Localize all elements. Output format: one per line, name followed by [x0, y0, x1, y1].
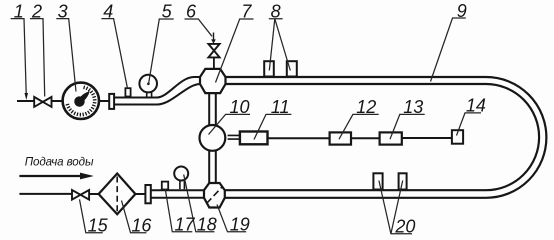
sensors 20 [373, 173, 382, 189]
node label 20 [379, 181, 412, 234]
node label 16 [122, 201, 147, 233]
wire: s-bend up to top level [157, 77, 200, 98]
valve 2 [34, 97, 51, 107]
wire: bottom-left double pipe [151, 190, 204, 198]
svg-text:13: 13 [403, 97, 423, 117]
svg-text:1: 1 [14, 1, 24, 21]
wire: vertical pipe circle10-junction19 [209, 150, 216, 183]
node label 10 [209, 114, 251, 134]
svg-text:5: 5 [162, 1, 173, 21]
svg-text:17: 17 [175, 215, 196, 235]
wire: filter16-coupling [135, 193, 145, 195]
svg-text:7: 7 [241, 1, 252, 21]
water meter 3 [63, 83, 99, 119]
sensor 4 [125, 88, 130, 96]
node label 2 [30, 19, 45, 97]
node label 1 [11, 19, 27, 94]
valve 15 [72, 190, 89, 200]
block 14 [452, 130, 463, 144]
block 13 [380, 132, 402, 144]
node label 11 [254, 114, 291, 139]
svg-text:10: 10 [230, 97, 250, 117]
svg-text:18: 18 [197, 215, 217, 235]
node label 17 [165, 189, 192, 231]
svg-text:8: 8 [271, 1, 281, 21]
wire: connector circle10 to block 11 [228, 135, 240, 139]
node label 3 [56, 19, 76, 92]
node label 12 [339, 114, 379, 139]
svg-text:19: 19 [230, 215, 250, 235]
supply arrow [19, 175, 81, 177]
coupling (before 17) [145, 185, 150, 203]
wire: vertical pipe junction7-circle10 [209, 93, 216, 126]
pump circle 10 [200, 125, 226, 151]
svg-text:9: 9 [457, 1, 467, 21]
svg-text:16: 16 [131, 215, 152, 235]
node label 14 [457, 113, 482, 136]
node label 5 [149, 19, 174, 84]
svg-text:12: 12 [356, 97, 376, 117]
node label 15 [80, 199, 103, 232]
svg-text:3: 3 [58, 1, 68, 21]
block 12 [330, 132, 351, 144]
wire: lower-level double pipe [114, 98, 158, 105]
wire: block13-block14 [402, 137, 452, 139]
node label 6 [185, 19, 213, 36]
svg-text:15: 15 [88, 215, 109, 235]
node label 4 [101, 19, 127, 89]
svg-text:6: 6 [186, 1, 197, 21]
wire: block12-block13 [351, 137, 380, 139]
node label 19 [217, 205, 246, 232]
gauge 18 [180, 180, 185, 189]
svg-text:Подача воды: Подача воды [25, 156, 94, 169]
meter pointer blob [74, 91, 89, 107]
wire: meter-to-flange [99, 100, 109, 102]
flange coupling (after meter) [109, 94, 114, 109]
wire: bottom inlet single pipe [19, 193, 72, 195]
junction 19 [204, 183, 225, 208]
gauge 5 [147, 92, 152, 97]
wire: return bend [486, 77, 546, 198]
node label 7 [216, 19, 254, 83]
svg-text:11: 11 [271, 97, 290, 117]
leaders and underlines [11, 18, 481, 234]
wire: valve2-to-meter [51, 100, 62, 102]
sensor 17 [162, 182, 168, 190]
valve 6 [213, 57, 215, 69]
wire: bottom pipe [225, 190, 486, 198]
node label 13 [390, 114, 425, 139]
svg-text:4: 4 [103, 1, 113, 21]
node label 9 [431, 18, 466, 82]
svg-text:20: 20 [394, 217, 415, 237]
node label 8 [269, 19, 291, 71]
wire: valve15-filter16 [89, 193, 100, 195]
wire: inlet single pipe top-left [17, 100, 34, 102]
wire: block11-block12 [268, 137, 330, 139]
wire: top pipe [226, 77, 487, 84]
junction 7 [200, 69, 226, 93]
leader arrowhead 1 [25, 93, 29, 100]
node label 18 [184, 175, 215, 232]
block 11 [240, 132, 268, 145]
sensors 8 [264, 61, 274, 76]
filter 16 [99, 174, 136, 215]
svg-text:2: 2 [31, 1, 42, 21]
svg-text:14: 14 [466, 96, 486, 116]
